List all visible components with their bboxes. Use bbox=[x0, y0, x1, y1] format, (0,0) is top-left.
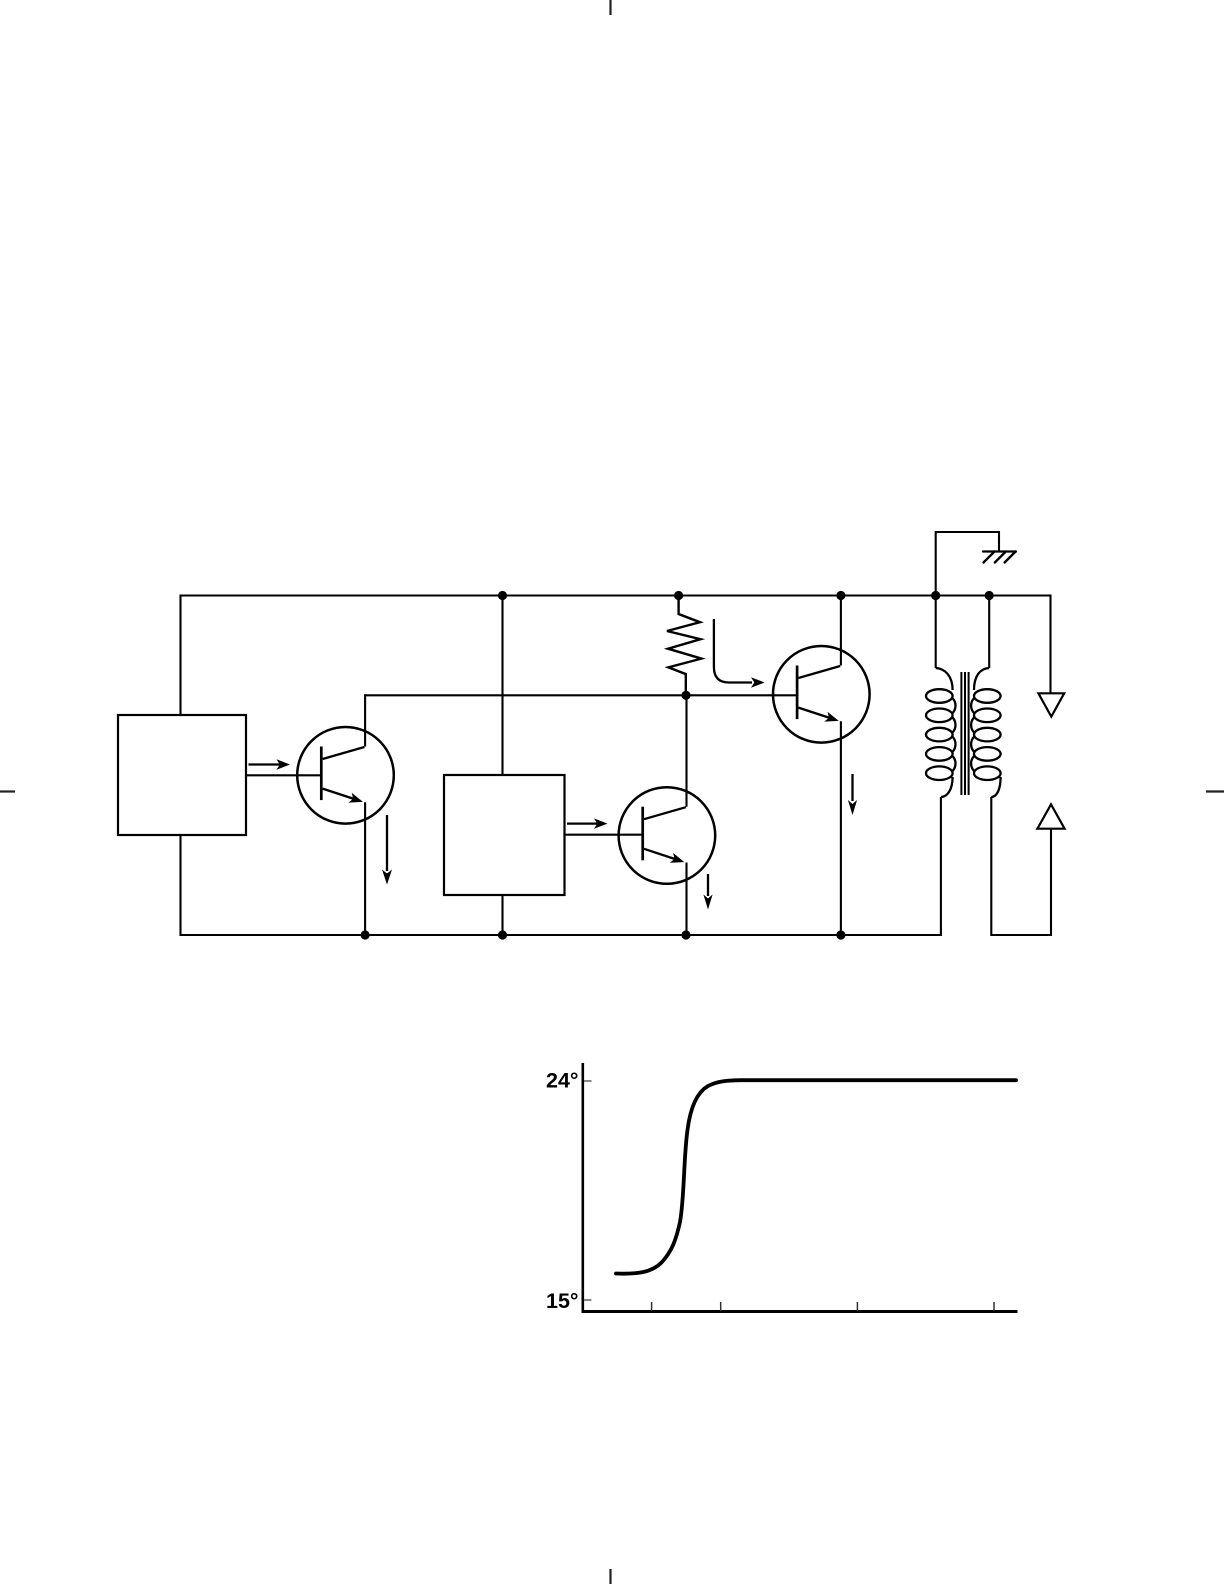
current arrow I3 bbox=[848, 774, 857, 815]
wire output bottom branch bbox=[1050, 829, 1052, 936]
wire top supply rail bbox=[181, 594, 1051, 596]
block U2 bbox=[444, 775, 565, 895]
wire left vertical upper bbox=[179, 595, 181, 717]
block U1 bbox=[118, 715, 246, 835]
transformer T1 primary winding bbox=[926, 596, 955, 936]
wire Q1 emitter lead bbox=[364, 802, 366, 935]
ground symbol bbox=[983, 552, 1016, 563]
transistor Q3 collector stroke bbox=[644, 807, 686, 819]
transistor Q1 base bar bbox=[320, 747, 323, 801]
wire Q3 collector lead bbox=[685, 695, 687, 806]
graph y-axis bbox=[581, 1063, 584, 1313]
wire bottom return rail right bbox=[991, 934, 1051, 936]
junction dot Q3 emitter at bottom rail bbox=[681, 930, 690, 939]
wire bottom return rail left bbox=[181, 934, 941, 936]
svg-text:15°: 15° bbox=[546, 1289, 579, 1313]
label 24 degrees bbox=[546, 1069, 579, 1093]
junction dot U2 at bottom rail bbox=[498, 930, 507, 939]
junction dot R1 top at rail bbox=[674, 591, 683, 600]
wire Q1 collector lead bbox=[364, 694, 366, 746]
wire left vertical lower bbox=[179, 834, 181, 936]
transistor Q3 body circle bbox=[619, 787, 716, 884]
transistor Q1 collector stroke bbox=[323, 747, 365, 759]
transistor Q1 body circle bbox=[297, 727, 394, 824]
wire Q3 emitter lead bbox=[685, 863, 687, 936]
graph x ticks bbox=[652, 1302, 994, 1311]
signal arrow U2 to Q3 bbox=[567, 818, 608, 828]
wire U2 bottom bbox=[501, 894, 503, 936]
transistor Q1 emitter stroke with arrow bbox=[323, 789, 363, 803]
graph temperature curve bbox=[616, 1080, 1016, 1273]
transistor Q2 base bar bbox=[796, 666, 799, 720]
transistor Q3 emitter stroke with arrow bbox=[644, 849, 684, 863]
wire Q3 base bbox=[565, 834, 644, 836]
output arrow up triangle bbox=[1037, 804, 1064, 828]
resistor R1 bbox=[667, 596, 701, 696]
current arrow I1 bbox=[382, 815, 392, 885]
wire U2 top feed bbox=[501, 596, 503, 777]
signal arrow U1 to Q1 bbox=[249, 759, 291, 769]
graph y tick 24 bbox=[584, 1080, 592, 1082]
control arrow into Q2 base bbox=[714, 619, 765, 688]
transistor Q2 collector stroke bbox=[798, 666, 840, 678]
transistor Q2 body circle bbox=[773, 646, 870, 743]
wire ground branch bbox=[936, 532, 999, 596]
junction dot T1 secondary at top rail bbox=[985, 591, 994, 600]
graph y tick 15 bbox=[584, 1299, 592, 1301]
junction dot T1 primary at top rail bbox=[931, 591, 940, 600]
wire Q2 emitter lead bbox=[840, 721, 842, 935]
junction dot Q2 emitter at bottom rail bbox=[836, 930, 845, 939]
current arrow I2 bbox=[703, 874, 712, 910]
output arrow down triangle bbox=[1038, 693, 1064, 716]
transformer T1 core bbox=[961, 672, 968, 795]
junction dot Q1 emitter at bottom rail bbox=[361, 930, 370, 939]
transistor Q3 base bar bbox=[641, 807, 644, 861]
wire output top branch bbox=[1050, 596, 1051, 694]
transistor Q2 emitter stroke with arrow bbox=[798, 708, 838, 722]
transformer T1 secondary winding bbox=[971, 596, 1000, 936]
junction dot U2 feed at top rail bbox=[498, 591, 507, 600]
wire Q1 base bbox=[246, 774, 321, 776]
junction dot Q2 collector at top rail bbox=[836, 591, 845, 600]
svg-text:24°: 24° bbox=[546, 1069, 579, 1093]
graph x-axis bbox=[582, 1310, 1018, 1313]
wire node A horizontal bbox=[364, 694, 797, 696]
wire Q2 collector lead bbox=[840, 596, 842, 666]
junction dot node A bbox=[681, 691, 690, 700]
label 15 degrees bbox=[546, 1289, 579, 1313]
